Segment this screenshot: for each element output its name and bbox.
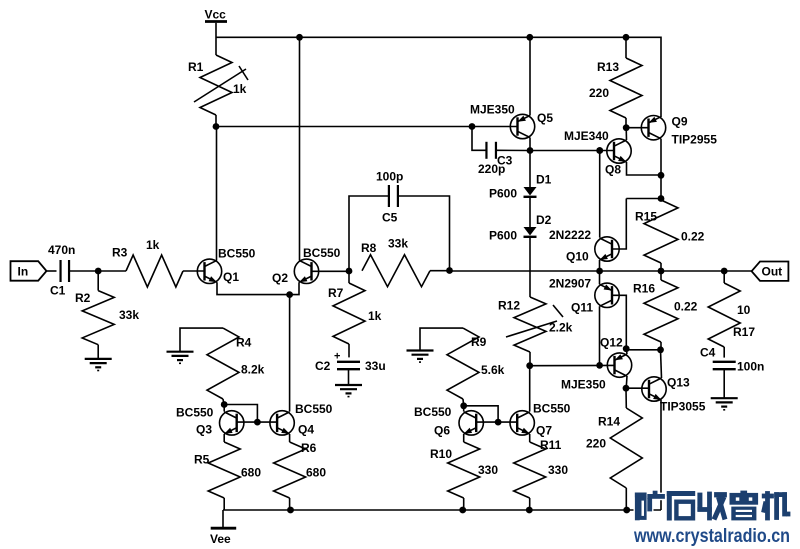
node rail R6 [287, 507, 294, 514]
svg-text:R16: R16 [633, 282, 655, 296]
svg-text:D2: D2 [536, 213, 552, 227]
svg-text:Q9: Q9 [672, 115, 688, 129]
node rail R11 [526, 507, 533, 514]
diode D1 P600 [524, 187, 537, 196]
node tail junction [286, 291, 293, 298]
node Q8 base [596, 147, 603, 154]
svg-text:Out: Out [762, 265, 783, 279]
svg-text:BC550: BC550 [414, 405, 452, 419]
svg-text:R17: R17 [733, 325, 755, 339]
ground R9 [407, 349, 434, 351]
wire Q9 base [626, 127, 648, 129]
transistor Q11 2N2907 [595, 283, 619, 307]
transistor Q3 [220, 411, 244, 435]
wire Q13 collector up [661, 350, 662, 378]
node mirror base junction [254, 419, 261, 426]
wire C4 to ground [723, 369, 725, 398]
node R4 bottom [221, 401, 228, 408]
resistor R6 [289, 434, 291, 442]
node C3 branch [469, 123, 476, 130]
svg-text:Q6: Q6 [434, 424, 450, 438]
node R16 bottom [657, 346, 664, 353]
svg-text:Q4: Q4 [298, 423, 314, 437]
wire Q3 base to Q4 base [237, 421, 277, 423]
svg-text:www.crystalradio.cn: www.crystalradio.cn [633, 525, 790, 547]
transistor Q13 TIP3055 [642, 377, 666, 401]
node rail Q10/Q11 [596, 268, 603, 275]
transistor Q6 [459, 411, 483, 435]
capacitor C5 [388, 185, 390, 207]
wire R4 node to base riser [224, 405, 257, 423]
terminal Out [752, 262, 789, 281]
node Q8 emitter junction [658, 172, 665, 179]
svg-text:220: 220 [586, 437, 606, 451]
svg-text:100p: 100p [376, 170, 403, 184]
svg-text:8.2k: 8.2k [241, 363, 265, 377]
wire C3 right leg [496, 149, 530, 151]
svg-text:Q11: Q11 [571, 301, 593, 315]
node R1 bottom junction [213, 123, 220, 130]
resistor R15 [644, 200, 678, 263]
svg-text:680: 680 [306, 466, 326, 480]
svg-text:680: 680 [241, 466, 261, 480]
svg-text:+: + [334, 351, 340, 363]
wire R12 node to Q7 collector [529, 366, 531, 412]
node Q12 base [596, 362, 603, 369]
svg-text:Q10: Q10 [566, 250, 589, 264]
svg-text:10: 10 [737, 303, 751, 317]
wire R9 node to base riser [464, 406, 498, 422]
svg-text:220: 220 [589, 86, 609, 100]
wire Q12 emitter up [625, 349, 628, 354]
node R13 bottom / Q9 base [623, 124, 630, 131]
transistor Q1 [197, 259, 221, 283]
svg-text:470n: 470n [48, 243, 75, 257]
svg-text:2.2k: 2.2k [549, 321, 573, 335]
svg-text:D1: D1 [536, 173, 552, 187]
node rail R14 [623, 507, 630, 514]
svg-text:TIP2955: TIP2955 [672, 133, 718, 147]
svg-text:5.6k: 5.6k [481, 363, 505, 377]
svg-text:MJE340: MJE340 [564, 129, 609, 143]
svg-text:R4: R4 [236, 336, 252, 350]
watermark logo text kuang-shi-shou-yin-ji [635, 491, 791, 521]
transistor Q4 [270, 411, 294, 435]
wire Q6 base to Q7 base [476, 421, 517, 423]
svg-text:100n: 100n [737, 360, 764, 374]
svg-text:220p: 220p [478, 162, 505, 176]
svg-text:Q1: Q1 [223, 270, 239, 284]
svg-text:BC550: BC550 [295, 402, 333, 416]
ground below C2 [335, 384, 362, 386]
svg-text:In: In [18, 265, 29, 279]
svg-text:Q5: Q5 [537, 111, 553, 125]
resistor R13 [625, 37, 627, 58]
resistor R12 trimmer [514, 297, 546, 352]
node Q12 emitter top [623, 345, 630, 352]
capacitor C4 [713, 361, 736, 363]
wire In to C1 [47, 270, 57, 272]
transistor Q7 [510, 411, 534, 435]
power Vee symbol [222, 510, 224, 527]
svg-text:R7: R7 [328, 286, 344, 300]
svg-text:Q13: Q13 [667, 376, 690, 390]
transistor Q12 MJE350 [607, 353, 631, 377]
node R12 bottom [526, 362, 533, 369]
transistor Q5 MJE350 [510, 114, 534, 138]
svg-text:R8: R8 [361, 241, 377, 255]
svg-text:R12: R12 [498, 299, 520, 313]
svg-text:Vcc: Vcc [205, 8, 227, 22]
wire Q2 collector riser [299, 37, 301, 260]
node R15 top [658, 195, 665, 202]
svg-text:MJE350: MJE350 [470, 103, 515, 117]
svg-text:C1: C1 [50, 284, 66, 298]
svg-text:BC550: BC550 [176, 406, 214, 420]
resistor R16 [660, 271, 662, 280]
svg-text:1k: 1k [233, 82, 247, 96]
wire R9 node to Q6 collector [463, 406, 465, 412]
wire node to Q10 collector [599, 151, 601, 238]
svg-text:1k: 1k [368, 309, 382, 323]
wire C2 to ground [348, 369, 350, 385]
svg-text:R1: R1 [188, 60, 204, 74]
wire Q12 collector down [625, 376, 628, 388]
svg-text:C5: C5 [382, 211, 398, 225]
node rail R10 [459, 507, 466, 514]
svg-text:TIP3055: TIP3055 [660, 400, 706, 414]
node R9 bottom [460, 402, 467, 409]
svg-text:R14: R14 [598, 415, 620, 429]
svg-text:330: 330 [548, 463, 568, 477]
wire tail to Q4 collector [289, 295, 291, 412]
wire Q10 emitter to rail [599, 260, 601, 271]
wire R15 top link [626, 198, 661, 200]
svg-text:33k: 33k [119, 308, 139, 322]
wire C5 right leg [398, 196, 450, 271]
transistor Q10 2N2222 [595, 237, 619, 261]
resistor R9 [447, 328, 479, 399]
wire Q2 base to node A [312, 270, 350, 272]
svg-text:R11: R11 [540, 438, 562, 452]
wire output rail [450, 270, 752, 272]
svg-text:1k: 1k [146, 238, 160, 252]
svg-text:P600: P600 [489, 187, 517, 201]
resistor R1 trimmer [200, 55, 232, 115]
svg-text:R13: R13 [597, 60, 619, 74]
wire Q11 emitter to rail [599, 271, 601, 284]
node top rail R13 [623, 34, 630, 41]
wire Q13 emitter down [660, 400, 662, 510]
svg-text:2N2907: 2N2907 [549, 277, 591, 291]
transistor Q8 MJE340 [607, 139, 631, 163]
svg-text:C2: C2 [315, 359, 331, 373]
capacitor C2 electrolytic [337, 361, 360, 363]
svg-text:MJE350: MJE350 [561, 378, 606, 392]
wire Q5 collector down [529, 138, 531, 151]
svg-text:R15: R15 [635, 210, 657, 224]
svg-text:R5: R5 [194, 453, 210, 467]
node top rail Q5 [526, 34, 533, 41]
wire Q8 collector up [625, 128, 627, 140]
wire Q9 collector down [660, 139, 662, 199]
capacitor C1 [59, 260, 61, 282]
svg-text:R2: R2 [75, 291, 91, 305]
capacitor C3 [485, 142, 487, 159]
wire ground to R4 top [180, 328, 223, 352]
wire D1 to D2 [529, 198, 531, 227]
wire R16 bottom link [626, 349, 660, 351]
wire Q1 collector riser [216, 127, 218, 261]
transistor Q2 [294, 259, 318, 283]
wire Q5 emitter to rail [529, 37, 531, 115]
svg-text:0.22: 0.22 [681, 230, 705, 244]
svg-text:Q7: Q7 [536, 424, 552, 438]
svg-text:BC550: BC550 [218, 247, 256, 261]
resistor R4 [207, 328, 239, 399]
wire R4 node to Q3 collector [223, 405, 225, 412]
wire D2 to R12 (crosses rail) [529, 238, 531, 297]
watermark logo halo [634, 489, 792, 522]
wire top rail Vcc to Q9 emitter corner [216, 37, 661, 117]
svg-text:Q8: Q8 [605, 163, 621, 177]
svg-text:Vee: Vee [210, 532, 231, 546]
resistor R3 [126, 255, 183, 287]
resistor R17 [723, 271, 725, 283]
node Q5 collector [527, 147, 534, 154]
diode D2 P600 [524, 227, 537, 236]
svg-text:Q12: Q12 [600, 336, 623, 350]
resistor R14 [625, 388, 627, 408]
resistor R10 [463, 434, 465, 442]
wire R12 bottom to Q12 base [530, 364, 615, 366]
resistor R5 [223, 434, 225, 442]
svg-text:P600: P600 [489, 229, 517, 243]
node rail R15/R16 [658, 268, 665, 275]
wire C3 left leg [472, 127, 487, 151]
svg-text:0.22: 0.22 [674, 300, 698, 314]
resistor R7 [348, 271, 350, 283]
terminal In [11, 261, 47, 281]
wire C1 to R3 [69, 270, 126, 272]
wire Q11 base R [613, 295, 627, 348]
wire Q11 collector down [599, 306, 601, 365]
wire ground to R9 top [420, 328, 463, 350]
wire Q8 emitter to Q9 collector line [627, 162, 662, 175]
node top rail Q2 [296, 34, 303, 41]
node Q10 base drive [596, 147, 603, 154]
svg-text:C4: C4 [700, 346, 716, 360]
node mirror2 base junction [495, 419, 502, 426]
node A R7/R8/C5 [346, 268, 353, 275]
wire bottom rail Vee [223, 509, 661, 511]
transistor Q9 TIP2955 [641, 116, 665, 140]
node input junction [95, 268, 102, 275]
ground R4 [167, 351, 194, 353]
svg-text:R6: R6 [301, 441, 317, 455]
svg-text:330: 330 [478, 463, 498, 477]
svg-text:R10: R10 [430, 447, 452, 461]
wire C5 left leg [349, 196, 389, 271]
node Q13 base node [623, 385, 630, 392]
svg-text:BC550: BC550 [533, 402, 571, 416]
wire Q1 emitter to Q2 emitter [217, 282, 299, 294]
svg-text:BC550: BC550 [303, 246, 341, 260]
ground below R2 [85, 358, 112, 360]
svg-text:2N2222: 2N2222 [549, 228, 591, 242]
power Vcc symbol [215, 23, 217, 55]
wire Q5 collector to Q8 base [530, 150, 614, 152]
node B R8 right [446, 267, 453, 274]
node rail R17 [721, 268, 728, 275]
wire Q10 base L [613, 199, 627, 250]
svg-text:R9: R9 [471, 335, 487, 349]
svg-text:33u: 33u [365, 359, 386, 373]
svg-text:Q2: Q2 [272, 271, 288, 285]
svg-text:33k: 33k [388, 237, 408, 251]
wire Q5 collector to D1 [529, 151, 531, 188]
resistor R11 [529, 434, 531, 442]
resistor R8 [362, 255, 430, 287]
svg-text:R3: R3 [112, 246, 128, 260]
wire R1 bottom to Q5 base [216, 126, 518, 128]
wire Q13 base [626, 387, 649, 389]
ground below C4 [711, 397, 738, 399]
resistor R2 [97, 271, 99, 291]
svg-text:Q3: Q3 [196, 423, 212, 437]
